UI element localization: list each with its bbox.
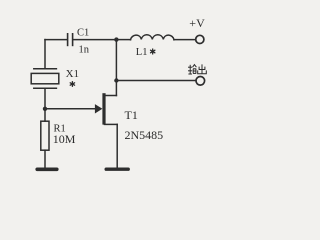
wire gate horizontal	[45, 108, 96, 110]
resistor R1	[41, 121, 49, 150]
svg-text:X1: X1	[66, 68, 79, 80]
capacitor C1	[68, 34, 73, 46]
wire right rail: drain up through output node to top row	[115, 40, 117, 96]
ground (left)	[37, 168, 57, 172]
node junction dot output row	[114, 78, 118, 82]
wire output row	[116, 80, 195, 82]
wire from C1 right plate to right rail	[73, 39, 116, 41]
svg-text:T1: T1	[125, 108, 138, 122]
inductor L1	[131, 35, 175, 40]
terminal +V	[196, 35, 204, 43]
svg-text:+V: +V	[189, 16, 205, 30]
svg-text:10M: 10M	[53, 132, 76, 146]
svg-text:1n: 1n	[79, 45, 90, 56]
wire left rail from top corner down to crystal	[44, 40, 46, 68]
svg-text:C1: C1	[77, 27, 89, 38]
wire top row to inductor	[116, 39, 130, 41]
crystal X1	[31, 69, 59, 89]
transistor T1 2N5485	[95, 93, 117, 124]
star mark under X1	[70, 82, 74, 87]
wire inductor to +V terminal	[174, 39, 196, 41]
label 输出 (output) drawn as paths	[188, 64, 206, 74]
node junction dot gate	[43, 107, 47, 111]
svg-text:L1: L1	[136, 47, 148, 58]
svg-text:2N5485: 2N5485	[125, 128, 164, 142]
ground (right)	[106, 167, 128, 170]
star mark after L1	[151, 49, 155, 54]
node junction dot top rail	[114, 37, 118, 41]
wire source down to ground	[116, 124, 118, 167]
glyph 出	[198, 64, 207, 73]
wire crystal bottom to gate node	[44, 89, 46, 121]
wire R1 bottom to ground	[44, 150, 46, 167]
glyph 输	[188, 65, 196, 75]
wire top-left horizontal from corner to C1 left plate	[45, 39, 67, 41]
terminal output	[196, 77, 205, 86]
